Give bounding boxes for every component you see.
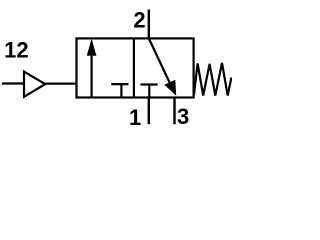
- flow path 2 to 3 with arrow (right position): [149, 38, 176, 95]
- port label 1: [129, 105, 141, 130]
- pilot port label 12: [4, 37, 28, 62]
- pneumatic pilot actuator triangle: [24, 72, 45, 97]
- svg-text:12: 12: [4, 37, 28, 62]
- svg-text:3: 3: [177, 104, 189, 129]
- port label 3: [177, 104, 189, 129]
- svg-text:2: 2: [133, 8, 145, 33]
- svg-text:1: 1: [129, 105, 141, 130]
- wire: pilot line to valve body: [46, 82, 77, 84]
- return spring: [194, 63, 231, 96]
- flow arrow 1 to 2 (left position): [87, 39, 97, 98]
- blocked port 1 symbol (right position): [141, 85, 158, 98]
- wire: port 1 stub: [148, 98, 150, 125]
- blocked port symbol (left position): [111, 84, 128, 97]
- port label 2: [133, 8, 145, 33]
- wire: port 3 stub: [173, 98, 175, 125]
- position divider: [133, 38, 135, 97]
- valve body frame: [77, 38, 194, 97]
- wire: port 2 stub: [148, 10, 150, 39]
- wire: pilot line left segment: [2, 82, 23, 84]
